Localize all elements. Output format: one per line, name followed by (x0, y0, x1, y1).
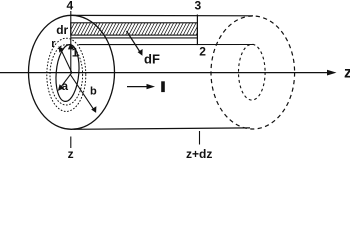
tick z position (70, 137, 72, 149)
wire vertical line 3 to 2 (196, 15, 198, 46)
svg-text:dF: dF (144, 51, 160, 66)
outer left ellipse (radius b face at z) (29, 15, 115, 129)
svg-text:1: 1 (72, 45, 79, 59)
wire inner tube top line B (radius r silhouette) (79, 44, 254, 46)
label I (161, 81, 165, 92)
svg-text:dr: dr (56, 23, 68, 37)
arrow radius a (58, 73, 72, 91)
svg-text:z: z (68, 147, 74, 159)
arrow radius b (70, 75, 96, 113)
svg-text:4: 4 (67, 0, 74, 13)
svg-text:r: r (51, 38, 56, 50)
inner solid ellipse (radius a hole) (54, 44, 81, 103)
svg-text:2: 2 (199, 44, 206, 58)
svg-text:z+dz: z+dz (186, 147, 212, 159)
svg-text:a: a (62, 81, 69, 93)
dotted ellipse (radius r circle) (50, 45, 83, 105)
tick z+dz position (199, 131, 201, 145)
wire cylinder bottom silhouette (74, 128, 251, 129)
arrow radius r (59, 46, 72, 73)
outer dashed ellipse (far face) (211, 16, 295, 129)
hatched element strip dr (65, 23, 203, 35)
svg-text:3: 3 (195, 0, 202, 13)
svg-text:z: z (344, 65, 350, 82)
arrow current I (127, 84, 155, 89)
wire inner tube top line A (71, 37, 197, 39)
wire vertical line 4 to center with arrow 1 (68, 11, 74, 73)
wire cylinder top silhouette (71, 14, 253, 16)
wire z-axis line (0, 70, 337, 76)
svg-text:b: b (90, 86, 97, 98)
arrow dF leader (127, 31, 143, 56)
inner dashed ellipse (far hole) (239, 44, 266, 100)
dotted ellipse (radius r+dr circle) (47, 38, 86, 111)
